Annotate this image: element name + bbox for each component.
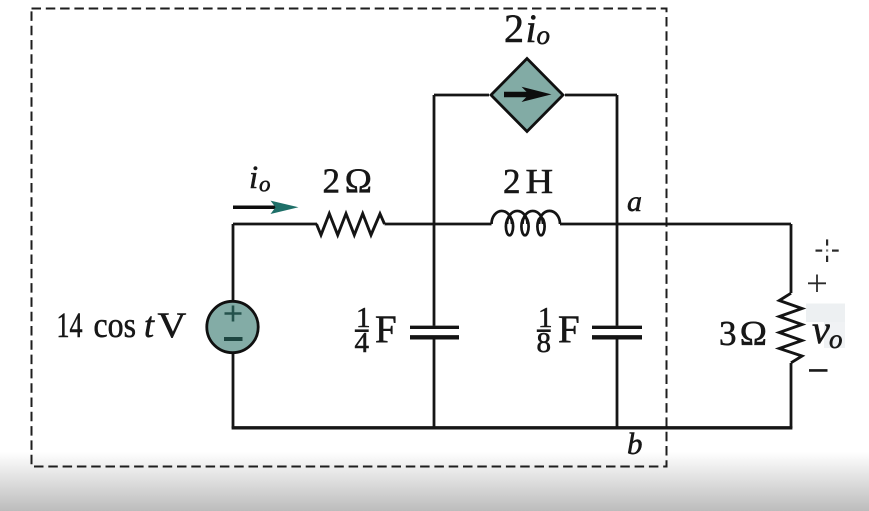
svg-text:14: 14 — [57, 305, 83, 345]
svg-text:Ω: Ω — [740, 314, 767, 353]
svg-text:b: b — [627, 426, 643, 461]
svg-text:Ω: Ω — [345, 162, 372, 201]
svg-text:o: o — [537, 20, 551, 50]
svg-text:v: v — [812, 307, 830, 352]
svg-text:V: V — [158, 305, 187, 345]
svg-text:2: 2 — [503, 162, 521, 201]
svg-text:8: 8 — [537, 327, 552, 359]
svg-text:i: i — [249, 160, 258, 196]
svg-text:o: o — [829, 324, 843, 354]
svg-text:4: 4 — [355, 327, 370, 359]
svg-text:F: F — [558, 308, 580, 351]
svg-text:cos: cos — [94, 305, 137, 345]
svg-text:o: o — [259, 171, 271, 196]
svg-text:H: H — [526, 162, 554, 201]
svg-text:3: 3 — [719, 314, 737, 353]
svg-text:a: a — [627, 185, 642, 218]
svg-text:2: 2 — [323, 162, 341, 201]
svg-text:i: i — [526, 6, 537, 51]
svg-text:t: t — [144, 305, 155, 345]
svg-text:2: 2 — [504, 6, 524, 51]
svg-text:F: F — [375, 308, 397, 351]
